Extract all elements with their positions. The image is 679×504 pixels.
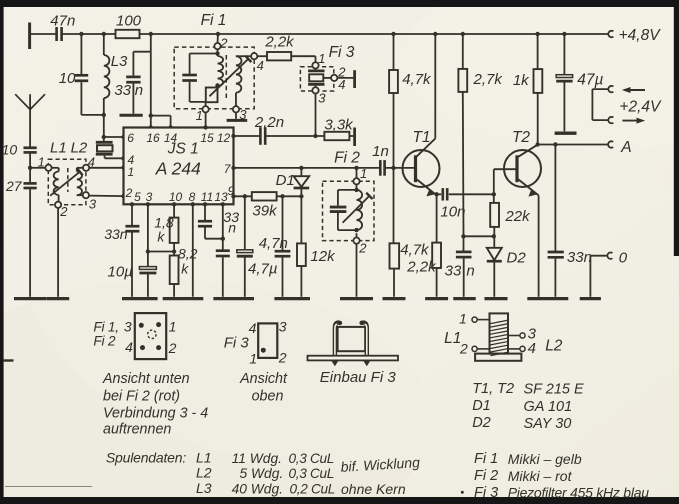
svg-text:n: n <box>466 263 474 280</box>
Einbau Fi3 diagram <box>308 323 399 367</box>
terminal 0 <box>590 249 627 296</box>
wire node2 to ground <box>57 208 59 297</box>
node 4 Fi1 <box>251 53 264 73</box>
svg-text:A 244: A 244 <box>155 158 201 178</box>
svg-text:4: 4 <box>257 58 264 73</box>
capacitor 10 antenna <box>2 142 37 183</box>
svg-text:oben: oben <box>252 388 284 404</box>
svg-text:Fi 3: Fi 3 <box>329 44 355 61</box>
svg-text:0,2 CuL: 0,2 CuL <box>290 482 336 497</box>
node rail-47u <box>562 32 566 36</box>
antenna input terminal bar <box>28 23 31 50</box>
svg-text:1n: 1n <box>372 143 389 160</box>
svg-text:3: 3 <box>318 91 326 106</box>
svg-text:1: 1 <box>196 108 203 123</box>
svg-text:12: 12 <box>217 131 231 145</box>
wire node3 to pin2 <box>89 194 126 198</box>
wire Fi1 node1 to pin15 <box>203 112 207 129</box>
pin label 12 <box>217 131 231 145</box>
capacitor 33n decoupling <box>114 34 150 114</box>
node 4 L2 <box>83 154 95 171</box>
label filter types <box>461 451 649 501</box>
capacitor Fi2 internal <box>330 184 359 232</box>
label transistor diode types <box>472 381 584 432</box>
ground L1 node2 <box>46 297 69 300</box>
svg-text:1: 1 <box>249 351 257 367</box>
ground bar4 <box>163 297 204 300</box>
wire top rail <box>30 33 609 35</box>
wire T2 base <box>492 169 517 196</box>
svg-text:10: 10 <box>59 70 76 87</box>
svg-text:4,7n: 4,7n <box>259 235 288 252</box>
svg-text:4,7k: 4,7k <box>402 71 432 88</box>
svg-text:Fi 1: Fi 1 <box>201 12 227 29</box>
svg-text:bei Fi 2 (rot): bei Fi 2 (rot) <box>103 388 180 404</box>
ground T2 33n <box>527 297 568 300</box>
svg-text:2: 2 <box>219 35 228 50</box>
svg-text:14: 14 <box>164 131 178 145</box>
filter L1 L2 dashed box <box>48 139 88 205</box>
svg-text:L2: L2 <box>71 139 88 156</box>
filter Fi3 dashed box <box>300 44 354 91</box>
svg-text:4,7k: 4,7k <box>400 242 430 259</box>
svg-text:33n: 33n <box>567 249 592 266</box>
wire Fi1 node2 internal <box>215 49 219 56</box>
wire node4 to pin1 <box>89 165 126 169</box>
svg-text:10µ: 10µ <box>108 264 133 281</box>
wire Fi2 node2 to ground <box>356 244 358 297</box>
filter Fi2 dashed box <box>323 149 375 240</box>
svg-text:SAY 30: SAY 30 <box>524 416 572 432</box>
arrow out +2,4V <box>622 118 645 124</box>
node 3 L2 <box>83 192 97 212</box>
svg-text:10: 10 <box>2 142 18 158</box>
svg-text:2: 2 <box>125 186 133 200</box>
svg-text:4: 4 <box>528 340 536 357</box>
svg-text:ohne Kern: ohne Kern <box>341 481 406 497</box>
wire L3 to pin6 <box>102 135 126 139</box>
svg-text:47n: 47n <box>50 12 75 29</box>
wire Fi1 node3 to ground <box>235 112 237 118</box>
svg-text:2,2k: 2,2k <box>406 258 437 275</box>
capacitor 33n T2 <box>548 145 592 297</box>
chassis bar Fi3 <box>353 70 356 88</box>
pin label 15 <box>200 131 214 145</box>
wire pin7 <box>231 166 415 170</box>
ground bar6 <box>274 297 310 300</box>
svg-text:3,3k: 3,3k <box>324 116 354 133</box>
svg-text:Fi 2: Fi 2 <box>474 468 498 484</box>
svg-text:2: 2 <box>278 350 287 366</box>
wire 2,2k to Fi3 node1 <box>315 56 317 62</box>
node 2 Fi1 <box>214 35 228 50</box>
svg-text:Fi 1,: Fi 1, <box>93 320 118 335</box>
svg-text:n: n <box>135 82 143 99</box>
ground Fi1 <box>227 119 248 122</box>
capacitor 47n <box>50 12 75 41</box>
antenna <box>15 94 45 147</box>
wire +2,4V bracket <box>591 89 593 120</box>
wire pin8 to ground <box>191 202 195 297</box>
ground 33n T1 <box>453 297 475 300</box>
svg-text:1: 1 <box>169 319 177 335</box>
inductor L1 <box>52 168 59 202</box>
IC U1 JS1 A244 <box>124 128 234 205</box>
inductor L2 <box>77 168 83 195</box>
svg-text:10: 10 <box>169 190 183 204</box>
svg-text:3: 3 <box>89 197 97 212</box>
wire rail to pin16 pin14 <box>149 52 173 130</box>
svg-text:Verbindung 3 - 4: Verbindung 3 - 4 <box>103 405 208 421</box>
svg-text:39k: 39k <box>252 203 278 220</box>
svg-text:+4,8V: +4,8V <box>619 27 662 44</box>
inductor L3 <box>104 34 128 137</box>
svg-text:5 Wdg.: 5 Wdg. <box>240 466 284 481</box>
filter Fi1 dashed box <box>174 12 254 109</box>
svg-text:0: 0 <box>619 249 628 266</box>
capacitor 33n T1 <box>445 252 475 297</box>
wire 10-L3 join <box>81 113 106 117</box>
svg-text:3: 3 <box>146 190 153 204</box>
inductor Fi1 secondary <box>236 56 251 106</box>
svg-text:Einbau Fi 3: Einbau Fi 3 <box>320 369 397 386</box>
svg-text:Ansicht: Ansicht <box>239 371 288 387</box>
pin label 6 <box>127 131 134 145</box>
capacitor 2,2n <box>254 114 284 145</box>
svg-text:L3: L3 <box>111 53 128 70</box>
arrow in +2,4V <box>622 87 645 93</box>
ground D2 <box>485 297 508 300</box>
svg-text:8: 8 <box>189 190 196 204</box>
capacitor 4,7u <box>237 196 278 296</box>
svg-text:Fi 3: Fi 3 <box>224 334 250 351</box>
svg-text:1: 1 <box>128 165 135 179</box>
resistor 2,2k emitter <box>406 243 441 297</box>
resistor 12k <box>297 196 336 296</box>
svg-text:6: 6 <box>127 131 134 145</box>
svg-text:2: 2 <box>59 204 68 219</box>
svg-text:11 Wdg.: 11 Wdg. <box>232 451 282 466</box>
capacitor 10n <box>437 188 494 221</box>
Fi3 pinout diagram <box>224 319 287 367</box>
svg-text:L3: L3 <box>196 480 212 496</box>
resistor 1k <box>513 34 542 145</box>
svg-text:1: 1 <box>38 154 45 169</box>
svg-text:33: 33 <box>445 262 462 279</box>
capacitor 27 <box>5 178 37 297</box>
node 3 Fi1 <box>233 106 247 122</box>
wire antenna to L1 node1 <box>30 167 45 169</box>
svg-text:1: 1 <box>318 51 325 66</box>
label Spulendaten block <box>106 450 421 497</box>
pin label 5 <box>134 190 141 204</box>
pin label 10 <box>169 190 183 204</box>
wire 2,7k down to 33n <box>461 234 494 251</box>
resistor 4,7k T1 lower <box>390 168 431 297</box>
resistor 8,2k <box>170 246 198 297</box>
core arrow Fi1 <box>209 56 251 97</box>
svg-text:L1: L1 <box>50 139 67 156</box>
pin label 1 <box>128 165 135 179</box>
wire Fi3 to chassis <box>337 77 353 79</box>
node rail-Fi1 <box>216 32 220 36</box>
svg-text:k: k <box>157 229 165 245</box>
svg-text:12k: 12k <box>310 248 336 265</box>
terminal A <box>608 139 632 156</box>
node rail-10 <box>79 32 83 36</box>
node 1 L1 <box>38 154 52 171</box>
svg-text:5: 5 <box>134 190 141 204</box>
diode D1 <box>276 166 310 197</box>
pin label 13 <box>214 190 228 204</box>
ground bar3 <box>122 297 158 300</box>
svg-text:T1, T2: T1, T2 <box>472 381 514 397</box>
coil former diagram L1 L2 <box>444 310 563 360</box>
node rail-16 <box>149 32 153 36</box>
svg-text:1: 1 <box>360 166 367 181</box>
svg-text:L2: L2 <box>196 465 212 481</box>
svg-text:Fi 2: Fi 2 <box>93 333 115 348</box>
capacitor 33n pin11 <box>198 202 239 239</box>
pin label 7 <box>224 162 232 176</box>
label Ansicht oben <box>239 371 288 404</box>
node rail-T1 <box>433 32 437 36</box>
svg-text:15: 15 <box>200 131 214 145</box>
pin label 9 <box>228 184 235 198</box>
svg-text:L2: L2 <box>545 337 563 354</box>
svg-text:SF 215 E: SF 215 E <box>524 382 585 398</box>
svg-text:33n: 33n <box>104 226 128 242</box>
resistor 3,3k <box>324 116 354 140</box>
svg-text:auftrennen: auftrennen <box>103 422 171 438</box>
svg-text:A: A <box>620 139 631 156</box>
resistor 1,8k <box>154 202 178 255</box>
svg-text:+2,4V: +2,4V <box>619 99 662 116</box>
svg-text:GA 101: GA 101 <box>524 399 573 415</box>
svg-text:T1: T1 <box>412 129 430 146</box>
node 2-4 Fi3 <box>331 65 346 93</box>
node rail-L3 <box>102 32 106 36</box>
wire Fi3 node3 down <box>313 94 317 139</box>
svg-text:40 Wdg.: 40 Wdg. <box>232 482 283 497</box>
pin label 16 <box>146 131 160 145</box>
wire T1 emitter down <box>434 192 438 243</box>
label Einbau Fi 3 <box>320 369 397 386</box>
capacitor 47u <box>556 34 603 131</box>
pin label 3 <box>146 190 153 204</box>
svg-text:Fi 2: Fi 2 <box>334 149 360 166</box>
capacitor 33n pin2 <box>104 202 139 297</box>
node rail-1k <box>535 32 539 36</box>
svg-text:100: 100 <box>116 12 142 29</box>
capacitor Fi1 internal <box>182 54 217 102</box>
svg-text:1: 1 <box>459 310 467 326</box>
svg-text:3: 3 <box>279 319 287 335</box>
resonator 455kHz <box>96 137 126 161</box>
svg-text:2: 2 <box>358 240 367 255</box>
ground 33n chassis bar <box>120 114 143 117</box>
resistor 2,7k <box>458 34 503 236</box>
core arrow Fi2 <box>343 193 373 223</box>
core box Fi1 <box>206 88 218 107</box>
svg-text:Fi 1: Fi 1 <box>474 451 498 467</box>
svg-text:22k: 22k <box>504 208 531 225</box>
svg-text:4,7µ: 4,7µ <box>248 260 278 277</box>
wire Fi2 node2 internal <box>356 233 358 237</box>
capacitor 4,7n pin13 <box>216 202 230 297</box>
svg-text:Spulendaten:: Spulendaten: <box>106 450 186 466</box>
ground 0 <box>580 297 601 300</box>
svg-text:3: 3 <box>124 319 132 335</box>
inductor Fi1 primary <box>215 56 223 88</box>
svg-text:2,2k: 2,2k <box>264 33 295 50</box>
ground 47u <box>555 131 577 134</box>
svg-text:Mikki – rot: Mikki – rot <box>508 468 573 484</box>
capacitor 10u <box>108 202 175 297</box>
node 3 Fi3 <box>312 87 326 105</box>
terminal +4,8V <box>608 27 661 44</box>
ground Fi2 <box>340 297 373 300</box>
node rail-4,7k <box>391 32 395 36</box>
piezo element Fi3 <box>308 69 331 88</box>
svg-text:D2: D2 <box>507 250 527 267</box>
wire rail to Fi1 node2 <box>217 34 220 43</box>
left margin tick <box>4 359 14 361</box>
svg-text:2: 2 <box>168 340 177 356</box>
node 1 Fi1 <box>196 106 209 123</box>
svg-text:4: 4 <box>338 77 345 92</box>
node rail-2,7k <box>461 32 465 36</box>
inductor Fi2 <box>357 190 363 230</box>
resistor 39k <box>252 192 278 219</box>
transistor T2 <box>504 129 541 197</box>
svg-text:L1: L1 <box>196 450 212 466</box>
transistor T1 <box>403 34 440 196</box>
svg-text:10n: 10n <box>440 204 465 221</box>
wire pin7 to Fi2 node1 <box>354 166 358 179</box>
svg-text:T2: T2 <box>512 129 530 146</box>
svg-text:L1: L1 <box>444 330 461 347</box>
wire pin9 <box>231 194 303 198</box>
svg-text:D1: D1 <box>276 172 295 189</box>
pin label 8 <box>189 190 196 204</box>
resistor 100 <box>116 12 142 38</box>
svg-text:n: n <box>228 220 236 236</box>
svg-text:8,2: 8,2 <box>178 246 198 262</box>
wire T2 emitter to ground <box>538 195 540 296</box>
svg-text:4: 4 <box>249 320 257 336</box>
Fi1 Fi2 pinout diagram <box>93 313 176 359</box>
node 2 L1 <box>55 202 68 220</box>
svg-text:2,7k: 2,7k <box>473 71 504 88</box>
pin label 14 <box>164 131 178 145</box>
svg-text:2,2n: 2,2n <box>254 114 284 131</box>
ground antenna <box>14 297 46 300</box>
node 1 Fi2 <box>353 166 367 185</box>
resistor 2,2k IF <box>257 33 315 60</box>
capacitor 1n <box>372 143 389 176</box>
ground 2,2k <box>425 297 448 300</box>
terminal +2,4V bottom <box>592 117 613 123</box>
pin label 4 <box>128 153 135 167</box>
svg-text:27: 27 <box>5 178 23 194</box>
svg-text:Ansicht unten: Ansicht unten <box>102 371 190 387</box>
svg-text:0,3 CuL: 0,3 CuL <box>289 466 335 481</box>
wire A line <box>535 142 608 146</box>
ground bar5 <box>213 297 254 300</box>
svg-text:16: 16 <box>146 131 160 145</box>
paper crease line <box>5 486 92 488</box>
node 2 Fi2 <box>353 237 367 255</box>
svg-text:47µ: 47µ <box>577 72 603 89</box>
terminal +2,4V top <box>592 86 613 92</box>
chassis bar 3,3k <box>353 128 356 147</box>
svg-text:4: 4 <box>125 339 133 355</box>
svg-text:Fi 3: Fi 3 <box>474 485 498 501</box>
svg-text:11: 11 <box>201 190 213 204</box>
svg-text:Piezofilter 455 kHz blau: Piezofilter 455 kHz blau <box>508 485 650 501</box>
capacitor 4,7n <box>259 196 291 296</box>
node 1 Fi3 <box>312 51 325 68</box>
pin label 2 <box>125 186 133 200</box>
wire pin12 <box>231 134 324 138</box>
pin label 11 <box>201 190 213 204</box>
core arrow L1L2 <box>50 168 82 195</box>
svg-text:D2: D2 <box>472 415 491 431</box>
capacitor 10 top-left <box>59 34 88 115</box>
ground bar 4,7k <box>383 297 406 300</box>
label +2,4V <box>619 99 662 116</box>
diode D2 <box>487 236 527 296</box>
svg-text:D1: D1 <box>472 398 491 414</box>
svg-text:33: 33 <box>114 82 131 99</box>
label Ansicht unten block <box>102 371 208 437</box>
svg-text:0,3 CuL: 0,3 CuL <box>289 451 335 466</box>
svg-text:Mikki – gelb: Mikki – gelb <box>508 451 582 467</box>
resistor 4,7k T1 base <box>389 34 432 170</box>
svg-text:1k: 1k <box>513 72 530 89</box>
resistor 22k <box>490 194 531 238</box>
svg-text:k: k <box>181 261 189 277</box>
node antenna-L1 <box>28 166 32 170</box>
svg-text:13: 13 <box>214 190 228 204</box>
